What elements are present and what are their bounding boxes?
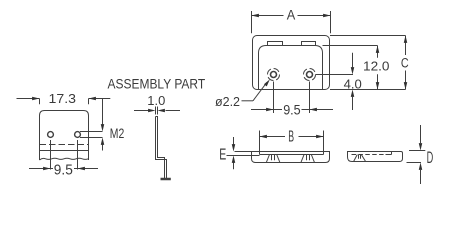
svg-text:ASSEMBLY PART: ASSEMBLY PART [108,76,206,92]
svg-text:ø2.2: ø2.2 [215,94,240,109]
svg-text:9.5: 9.5 [283,103,301,118]
svg-text:12.0: 12.0 [363,59,390,73]
svg-text:M2: M2 [110,126,125,141]
svg-text:E: E [219,145,226,163]
svg-text:B: B [288,127,294,146]
svg-text:17.3: 17.3 [49,91,77,106]
svg-text:4.0: 4.0 [344,76,362,91]
svg-text:C: C [401,55,409,71]
svg-text:9.5: 9.5 [54,162,73,179]
svg-text:1.0: 1.0 [147,94,165,108]
svg-text:A: A [287,7,296,23]
svg-text:D: D [427,148,434,166]
